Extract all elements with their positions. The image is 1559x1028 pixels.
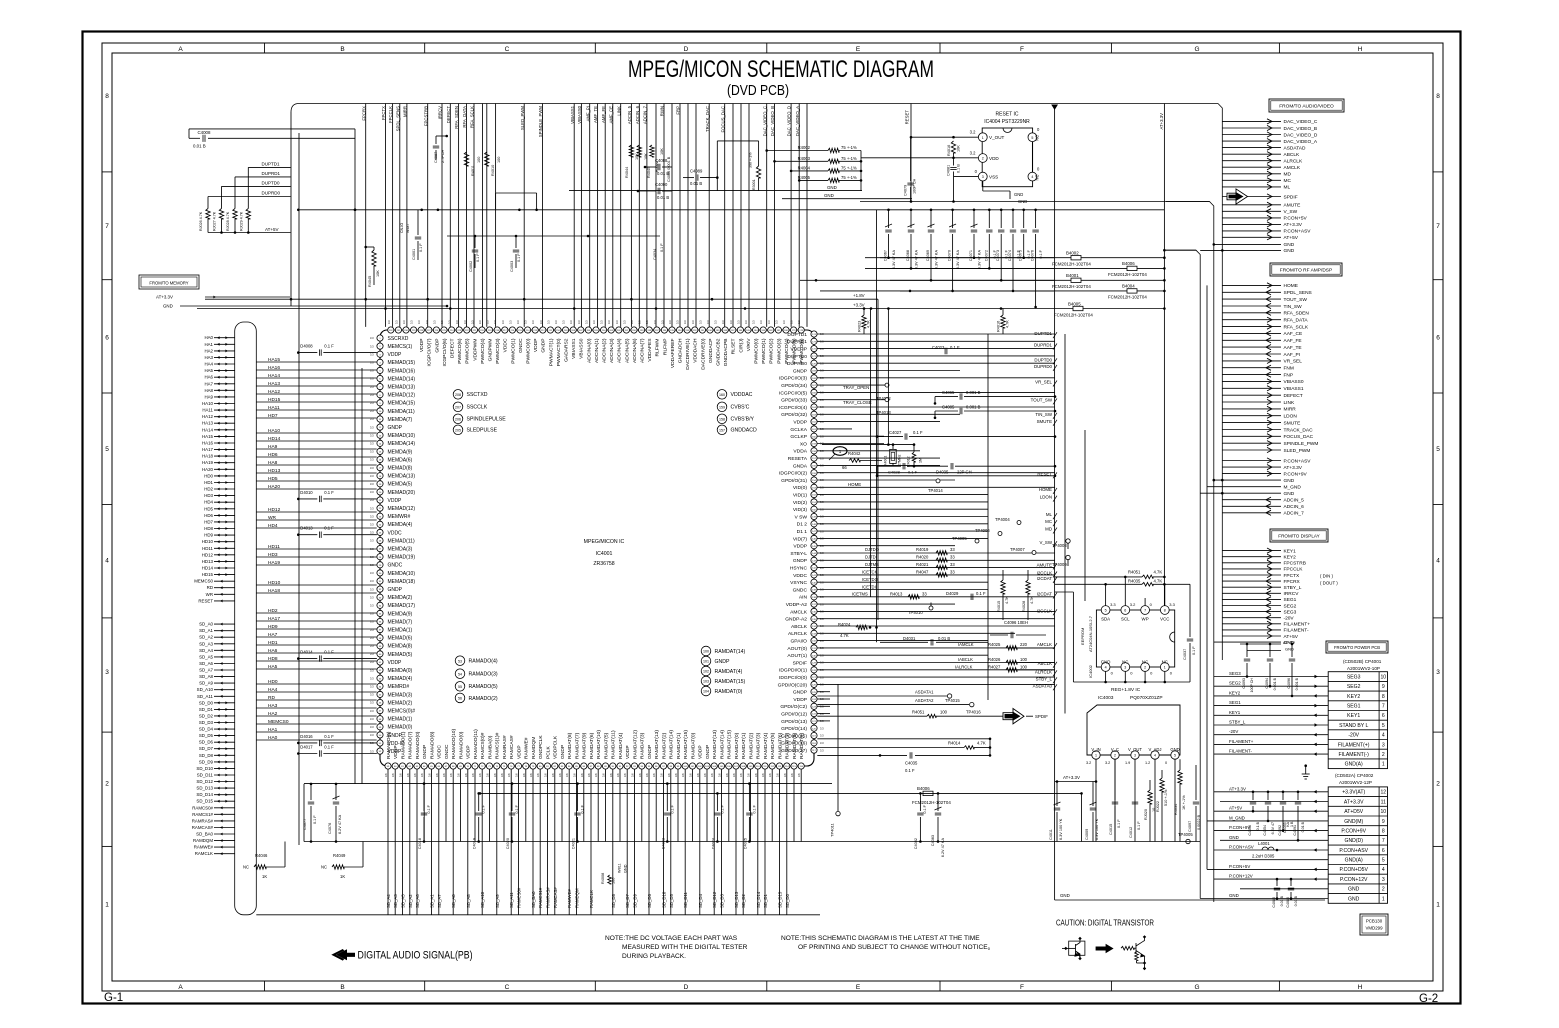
svg-text:TP4005: TP4005 [952, 536, 967, 541]
capacitor C4070 6.3V 47 KA [952, 210, 954, 228]
svg-text:C4027: C4027 [889, 430, 902, 435]
svg-text:IABCLK: IABCLK [958, 657, 973, 662]
svg-text:MEMAD(15): MEMAD(15) [388, 360, 416, 366]
svg-text:8: 8 [1436, 93, 1440, 100]
wire RESET row [877, 475, 1055, 477]
svg-text:GPAI/O: GPAI/O [791, 639, 808, 645]
pin callout 101 GNDP [701, 656, 711, 666]
svg-text:D4035: D4035 [936, 470, 949, 475]
svg-text:SD_BA0: SD_BA0 [531, 891, 536, 908]
wire IC4004 VSS [954, 176, 979, 178]
svg-text:C4086 0.001 B: C4086 0.001 B [667, 156, 671, 182]
svg-text:VDDP-A2: VDDP-A2 [786, 602, 807, 608]
svg-text:A: A [178, 46, 183, 53]
svg-text:3.6: 3.6 [797, 773, 801, 777]
svg-text:100P CH: 100P CH [1250, 678, 1254, 693]
label AT+3.3V vertical wire [1163, 104, 1165, 606]
svg-text:VID(2): VID(2) [793, 500, 808, 506]
svg-text:ICGPCI/O(6): ICGPCI/O(6) [442, 338, 448, 366]
svg-text:SPDL_SENS: SPDL_SENS [395, 106, 400, 131]
svg-text:VDDP: VDDP [466, 745, 472, 759]
svg-text:3: 3 [1382, 877, 1385, 883]
svg-text:RAMDAT(8): RAMDAT(8) [567, 732, 573, 759]
svg-text:SLEDPULSE: SLEDPULSE [467, 428, 498, 434]
svg-text:DUPRD1: DUPRD1 [262, 171, 281, 176]
svg-text:AMF_PI: AMF_PI [585, 106, 590, 122]
svg-text:TP4014: TP4014 [928, 488, 943, 493]
svg-text:205: 205 [455, 428, 461, 432]
svg-text:HA18: HA18 [268, 588, 280, 594]
wire rail mid y793 [480, 792, 1064, 794]
capacitor C4020 0.1 F [511, 784, 513, 811]
svg-text:ML: ML [1284, 185, 1291, 191]
svg-text:HD9: HD9 [268, 624, 278, 630]
svg-text:GNDPCLK: GNDPCLK [538, 735, 544, 759]
svg-text:HD14: HD14 [202, 566, 214, 571]
svg-text:2: 2 [982, 157, 984, 161]
svg-text:MEMAD(13): MEMAD(13) [388, 385, 416, 391]
svg-text:3.3: 3.3 [554, 320, 558, 324]
wire vertical feed x876 [876, 210, 878, 643]
svg-text:SD_A3: SD_A3 [393, 894, 398, 908]
svg-text:DJTMS: DJTMS [865, 562, 879, 567]
svg-text:RAMADO(5): RAMADO(5) [469, 684, 498, 690]
svg-text:R4023: R4023 [858, 321, 862, 332]
svg-text:0.1 F: 0.1 F [324, 734, 334, 739]
wire rail1 y784 [304, 783, 832, 785]
svg-text:STBY_L: STBY_L [1036, 676, 1053, 681]
svg-text:VDDP: VDDP [793, 697, 807, 703]
svg-text:HA18: HA18 [202, 454, 214, 459]
svg-text:DEFECT: DEFECT [446, 106, 451, 124]
svg-text:4: 4 [1154, 754, 1156, 758]
svg-text:HA19: HA19 [268, 560, 280, 566]
svg-text:3.6: 3.6 [594, 773, 598, 777]
wire right bus vertical x1213 [1166, 202, 1214, 903]
svg-text:D4029: D4029 [946, 591, 959, 596]
svg-text:TRACK_DAC: TRACK_DAC [1284, 427, 1314, 433]
svg-text:GNDPWM: GNDPWM [488, 339, 494, 362]
svg-text:3.3: 3.3 [370, 571, 374, 575]
svg-text:HD10: HD10 [268, 580, 281, 586]
svg-text:VDDP: VDDP [533, 339, 539, 353]
svg-text:3.6: 3.6 [442, 773, 446, 777]
svg-text:10K: 10K [376, 270, 380, 277]
svg-text:HA13: HA13 [202, 421, 214, 426]
svg-text:P.CON+9V: P.CON+9V [1284, 471, 1308, 477]
svg-text:2: 2 [1382, 887, 1385, 893]
IC4002 pin 2 NC [1141, 663, 1150, 672]
svg-text:GND: GND [1348, 887, 1360, 893]
capacitor C4009 6.3V 100 YK [1092, 782, 1094, 807]
svg-text:NC: NC [243, 865, 249, 870]
svg-text:0.1 F: 0.1 F [1137, 821, 1141, 830]
display signal list [1214, 548, 1310, 646]
svg-text:TP4011: TP4011 [830, 823, 835, 837]
svg-text:3.3: 3.3 [370, 514, 374, 518]
svg-text:27MHz: 27MHz [898, 454, 902, 466]
svg-text:I2CCLK: I2CCLK [1037, 571, 1052, 576]
svg-text:HD5: HD5 [268, 476, 278, 482]
svg-text:100: 100 [703, 650, 709, 654]
svg-text:KEY2: KEY2 [1229, 690, 1241, 695]
svg-text:RESET: RESET [905, 110, 910, 125]
svg-text:MEASURED WITH THE DIGITAL TEST: MEASURED WITH THE DIGITAL TESTER [622, 944, 748, 951]
svg-text:SD_D3: SD_D3 [199, 720, 214, 725]
svg-text:P.CON+ASV: P.CON+ASV [1339, 848, 1368, 854]
svg-text:3.3: 3.3 [531, 320, 535, 324]
svg-text:3.3: 3.3 [370, 385, 374, 389]
pin callout 104 RAMDAT(0) [701, 686, 711, 696]
svg-text:101: 101 [703, 660, 709, 664]
svg-text:C4001: C4001 [412, 249, 416, 260]
svg-text:3.3: 3.3 [370, 539, 374, 543]
svg-text:0.01 B: 0.01 B [1294, 895, 1298, 906]
svg-text:ADCINA(4): ADCINA(4) [617, 338, 623, 363]
svg-text:3.6: 3.6 [667, 773, 671, 777]
svg-text:0.1 F: 0.1 F [752, 804, 756, 813]
svg-text:HD14: HD14 [268, 436, 281, 442]
svg-text:SD_D7: SD_D7 [625, 894, 630, 908]
svg-text:75 +-1%: 75 +-1% [841, 175, 857, 180]
svg-text:FPCSTRB: FPCSTRB [423, 106, 428, 126]
IC4002 pin 1 NC [1160, 663, 1169, 672]
svg-text:RAMADO(3): RAMADO(3) [469, 672, 498, 678]
svg-text:3.3: 3.3 [370, 425, 374, 429]
svg-text:PWMCO(0): PWMCO(0) [754, 338, 760, 364]
svg-text:FILAMENT+: FILAMENT+ [1229, 739, 1254, 744]
svg-text:C: C [505, 46, 510, 53]
svg-text:206: 206 [455, 417, 461, 421]
svg-text:MD: MD [1045, 527, 1052, 532]
svg-text:SD_D12: SD_D12 [196, 779, 213, 784]
svg-text:VDDP: VDDP [393, 745, 399, 759]
IC4003 pin 4 V_ADJ [1151, 751, 1159, 759]
svg-text:MEMCS(1): MEMCS(1) [388, 344, 413, 350]
svg-text:RAMCS1#: RAMCS1# [192, 812, 213, 817]
svg-text:I2CDAT: I2CDAT [1037, 592, 1053, 597]
svg-text:STBY-L: STBY-L [790, 551, 807, 557]
svg-text:3.6: 3.6 [500, 773, 504, 777]
svg-text:MEMDA(2): MEMDA(2) [388, 595, 413, 601]
svg-text:FROM/TO POWER PCB: FROM/TO POWER PCB [1334, 645, 1380, 650]
svg-text:RAMDAT(9): RAMDAT(9) [799, 732, 805, 759]
svg-text:AT+3.3V: AT+3.3V [1063, 775, 1080, 780]
svg-text:C4018: C4018 [418, 838, 422, 849]
svg-text:PQ070XZ01ZP: PQ070XZ01ZP [1130, 695, 1163, 701]
svg-text:3.6: 3.6 [391, 773, 395, 777]
svg-text:RAMDAT(3): RAMDAT(3) [640, 732, 646, 759]
svg-text:GCLKP: GCLKP [790, 434, 807, 440]
svg-text:IC4002: IC4002 [1088, 664, 1093, 678]
test point TP4013 [885, 398, 889, 402]
svg-text:MEMAD(2): MEMAD(2) [388, 700, 413, 706]
svg-text:3.6: 3.6 [428, 773, 432, 777]
svg-text:HA15: HA15 [268, 357, 280, 363]
pcb id box PCB130 VMD299 [1360, 914, 1388, 935]
svg-text:RAMDAT(3): RAMDAT(3) [756, 732, 762, 759]
svg-text:PWMCO(0): PWMCO(0) [526, 338, 532, 364]
svg-text:3.3: 3.3 [370, 749, 374, 753]
svg-text:FCM2012H-102T04: FCM2012H-102T04 [1108, 272, 1147, 277]
svg-text:3.6: 3.6 [435, 773, 439, 777]
svg-text:NC: NC [1142, 660, 1148, 665]
svg-text:GCLKA: GCLKA [790, 427, 807, 433]
svg-text:C4056: C4056 [1248, 825, 1252, 836]
svg-text:3.6: 3.6 [565, 773, 569, 777]
svg-text:3.6: 3.6 [558, 773, 562, 777]
svg-text:HA5: HA5 [268, 664, 278, 670]
svg-text:VDDC: VDDC [437, 745, 443, 759]
svg-text:MEMCS0: MEMCS0 [268, 719, 289, 725]
svg-text:6.3V 47: 6.3V 47 [1271, 822, 1275, 834]
IC4001 right pin row [778, 331, 825, 754]
svg-text:0.01 B: 0.01 B [1301, 821, 1305, 832]
svg-text:75 +-1%: 75 +-1% [841, 156, 857, 161]
svg-text:LINK: LINK [1284, 400, 1295, 406]
IC4004 pin 5 NC [1028, 133, 1037, 142]
svg-text:C4025: C4025 [743, 838, 747, 849]
pin callout 159 CVBS'C [717, 402, 727, 412]
resistor R4044 10K [629, 145, 633, 157]
svg-text:SD_A7: SD_A7 [199, 668, 213, 673]
svg-text:HA0: HA0 [204, 335, 213, 340]
svg-text:3.6: 3.6 [725, 773, 729, 777]
svg-text:6.3V 47 KA: 6.3V 47 KA [915, 250, 919, 270]
svg-text:RWN: RWN [660, 106, 665, 116]
svg-text:SD_D14: SD_D14 [196, 792, 213, 797]
svg-text:3: 3 [1436, 669, 1440, 676]
ground symbol below CP4001 [1304, 764, 1307, 767]
wire IC4004 VDD [861, 157, 978, 159]
svg-text:3.3: 3.3 [425, 320, 429, 324]
svg-text:0: 0 [1165, 761, 1167, 765]
svg-text:PWMCO(2): PWMCO(2) [769, 338, 775, 364]
capacitor cluster near CP4001 [1242, 643, 1299, 698]
svg-text:FILAMENT(-): FILAMENT(-) [1339, 752, 1370, 758]
svg-text:VSS: VSS [989, 175, 998, 180]
svg-text:R4010: R4010 [491, 165, 495, 176]
svg-text:AT+3.3V: AT+3.3V [1284, 465, 1303, 471]
svg-text:C4081: C4081 [947, 165, 951, 176]
svg-text:TRAY_CLOSE: TRAY_CLOSE [843, 400, 872, 405]
svg-text:3.3: 3.3 [478, 320, 482, 324]
svg-text:C4021: C4021 [572, 838, 576, 849]
svg-text:SEG1: SEG1 [1229, 700, 1241, 705]
svg-text:IDGPCI/O(0): IDGPCI/O(0) [779, 675, 807, 681]
svg-text:HD8: HD8 [268, 656, 278, 662]
svg-text:3.2: 3.2 [970, 130, 976, 135]
svg-text:C4002: C4002 [469, 261, 473, 272]
svg-text:HD3: HD3 [204, 493, 213, 498]
resistor R4003 75 [775, 160, 829, 162]
svg-text:RAMADO(8): RAMADO(8) [429, 731, 435, 759]
svg-text:C4076: C4076 [1031, 250, 1035, 261]
svg-text:HD11: HD11 [202, 546, 213, 551]
top vertical signal bundle [361, 104, 807, 327]
wire vertical feed x299 [298, 133, 300, 845]
IC4003 pin 1 V_IN [1092, 751, 1100, 759]
svg-text:RAMCLK: RAMCLK [195, 851, 213, 856]
svg-text:DUPRD1: DUPRD1 [1034, 343, 1053, 348]
svg-text:MEMDA(1): MEMDA(1) [388, 628, 413, 634]
svg-text:P.CON+ASV: P.CON+ASV [1229, 845, 1254, 850]
svg-text:10K: 10K [957, 145, 961, 152]
svg-text:10: 10 [1380, 809, 1386, 815]
svg-text:C4024: C4024 [711, 838, 715, 849]
svg-text:C4034: C4034 [653, 249, 657, 260]
svg-text:NOTE:THIS SCHEMATIC DIAGRAM IS: NOTE:THIS SCHEMATIC DIAGRAM IS THE LATES… [781, 935, 980, 942]
svg-text:6.3V 100 YK: 6.3V 100 YK [1095, 818, 1099, 840]
svg-text:SLED_PWM: SLED_PWM [1284, 448, 1311, 454]
wire vertical feed x362 [361, 368, 363, 784]
svg-text:100: 100 [477, 157, 481, 163]
capacitor C4077 0.1 F [310, 784, 312, 800]
svg-text:DAC_VIDEO_D: DAC_VIDEO_D [787, 106, 792, 136]
svg-text:TOUT_SW: TOUT_SW [1031, 397, 1053, 402]
svg-text:R4049: R4049 [333, 853, 346, 858]
svg-text:3.3: 3.3 [600, 320, 604, 324]
svg-text:SD_D3: SD_D3 [720, 894, 725, 908]
svg-text:PWMCO(5): PWMCO(5) [465, 338, 471, 364]
svg-text:C4074: C4074 [1008, 250, 1012, 261]
connector table CP4002 [1328, 787, 1387, 903]
svg-text:SD_A6: SD_A6 [415, 894, 420, 908]
svg-text:SD_D10: SD_D10 [662, 891, 667, 908]
svg-text:RLSET: RLSET [731, 338, 737, 354]
svg-text:6: 6 [105, 335, 109, 342]
svg-text:0.01 B: 0.01 B [938, 636, 950, 641]
capacitor C4001 0.1 F [417, 210, 419, 235]
svg-text:100: 100 [940, 710, 948, 715]
svg-text:GNDP-A2: GNDP-A2 [785, 617, 807, 623]
svg-text:HD7: HD7 [268, 413, 278, 419]
node top rail junction arrow [1051, 105, 1058, 111]
svg-text:AOUT(1): AOUT(1) [787, 653, 807, 659]
pin callout 55 RAMADO(5) [455, 682, 465, 692]
svg-text:0.1 B: 0.1 B [1256, 821, 1260, 830]
capacitor C4074 0.1 F [1012, 210, 1014, 228]
svg-text:0.1 F: 0.1 F [324, 526, 334, 531]
svg-text:VSYNC: VSYNC [790, 580, 807, 586]
svg-text:C/R(J): C/R(J) [738, 338, 744, 352]
svg-text:C4023: C4023 [932, 345, 945, 350]
svg-text:RAMDAT(1): RAMDAT(1) [741, 732, 747, 759]
svg-text:1.2: 1.2 [1145, 761, 1150, 765]
svg-text:3.3: 3.3 [698, 320, 702, 324]
svg-text:4.7K: 4.7K [1154, 579, 1163, 584]
svg-text:XO: XO [800, 441, 807, 447]
svg-text:ADCIN_5: ADCIN_5 [627, 105, 632, 124]
svg-text:DUPTD0: DUPTD0 [1034, 357, 1052, 362]
svg-text:IALRCLK: IALRCLK [955, 665, 973, 670]
svg-text:R4025: R4025 [988, 642, 1001, 647]
svg-text:GNDDACD: GNDDACD [731, 428, 757, 434]
svg-text:7: 7 [1436, 223, 1440, 230]
svg-text:ASDATAD: ASDATAD [1284, 145, 1306, 151]
svg-text:3.3: 3.3 [370, 377, 374, 381]
svg-text:V_ADJ: V_ADJ [1148, 747, 1161, 752]
svg-text:ICETDO: ICETDO [862, 577, 879, 582]
svg-text:3.3: 3.3 [668, 320, 672, 324]
svg-text:SD_D9: SD_D9 [199, 759, 214, 764]
svg-text:VDD: VDD [989, 156, 999, 161]
svg-text:SD_A7: SD_A7 [437, 894, 442, 908]
capacitor C4076 RL 6.2V 47 KA [335, 784, 337, 800]
svg-text:3.6: 3.6 [681, 773, 685, 777]
svg-text:C4072: C4072 [984, 250, 988, 261]
svg-text:0.1 F: 0.1 F [324, 490, 334, 495]
svg-text:IDGPCI/O(3): IDGPCI/O(3) [779, 376, 807, 382]
svg-text:A: A [178, 984, 183, 991]
svg-text:RAMDAT(9): RAMDAT(9) [582, 732, 588, 759]
svg-text:SSCRXD: SSCRXD [388, 336, 409, 342]
svg-text:VDDP: VDDP [388, 660, 403, 666]
svg-text:3.6: 3.6 [776, 773, 780, 777]
capacitor C4085b C4080 [1272, 878, 1298, 908]
SPDIF double arrow [1222, 196, 1281, 198]
svg-text:0.1 F: 0.1 F [720, 804, 724, 813]
svg-text:3.6: 3.6 [399, 773, 403, 777]
svg-text:RJ022: RJ022 [1156, 801, 1160, 812]
svg-text:6.3V 100 YK: 6.3V 100 YK [1059, 818, 1063, 840]
svg-text:IC4001: IC4001 [596, 551, 613, 557]
svg-text:VID(7): VID(7) [793, 536, 808, 542]
svg-text:VDDP: VDDP [625, 745, 631, 759]
svg-text:PWMACT(0): PWMACT(0) [556, 338, 562, 366]
svg-text:D4031: D4031 [903, 636, 916, 641]
svg-text:3.3: 3.3 [370, 450, 374, 454]
svg-text:3.3: 3.3 [676, 320, 680, 324]
svg-text:RAMDAT(6): RAMDAT(6) [777, 732, 783, 759]
svg-text:3.3: 3.3 [370, 474, 374, 478]
svg-text:C: C [505, 984, 510, 991]
svg-text:3.3: 3.3 [615, 320, 619, 324]
svg-text:54: 54 [458, 672, 462, 676]
svg-text:8: 8 [1382, 828, 1385, 834]
svg-text:ZR36758: ZR36758 [593, 561, 614, 567]
svg-text:AMUTE: AMUTE [1037, 562, 1052, 567]
memory address bus bar [235, 322, 257, 915]
svg-text:SD_D2: SD_D2 [199, 713, 214, 718]
capacitor C4068 6.3V 47 KA [910, 210, 912, 228]
svg-text:3.6: 3.6 [522, 773, 526, 777]
wire ferrite row4 [820, 290, 1164, 292]
svg-text:HD7: HD7 [204, 519, 213, 524]
svg-text:3.6: 3.6 [638, 773, 642, 777]
svg-text:VR_SEL: VR_SEL [1284, 359, 1303, 365]
wire rail y236 [447, 235, 660, 237]
svg-text:AT24C04N-10SI-2.7: AT24C04N-10SI-2.7 [1088, 615, 1093, 652]
svg-text:RAMDAT(10): RAMDAT(10) [596, 730, 602, 759]
svg-text:B4006: B4006 [1122, 261, 1135, 266]
svg-text:AT+5V: AT+5V [1229, 806, 1242, 811]
svg-text:3.6: 3.6 [478, 773, 482, 777]
svg-text:3.3: 3.3 [370, 369, 374, 373]
svg-text:HD13: HD13 [202, 559, 214, 564]
svg-text:VDDDAC: VDDDAC [731, 392, 753, 398]
svg-text:100: 100 [612, 878, 616, 884]
svg-text:DUPTD1: DUPTD1 [262, 162, 280, 167]
svg-text:DIGITAL AUDIO SIGNAL(PB): DIGITAL AUDIO SIGNAL(PB) [358, 950, 473, 962]
svg-text:207: 207 [455, 405, 461, 409]
svg-text:PWMCO(6): PWMCO(6) [799, 338, 805, 364]
wire mid rail y201 [860, 201, 1210, 203]
svg-text:NC: NC [1035, 174, 1040, 180]
svg-text:DURING PLAYBACK.: DURING PLAYBACK. [622, 953, 686, 960]
svg-text:DUPTD0: DUPTD0 [262, 181, 280, 186]
svg-text:RAMCS(1)#: RAMCS(1)# [495, 732, 501, 759]
